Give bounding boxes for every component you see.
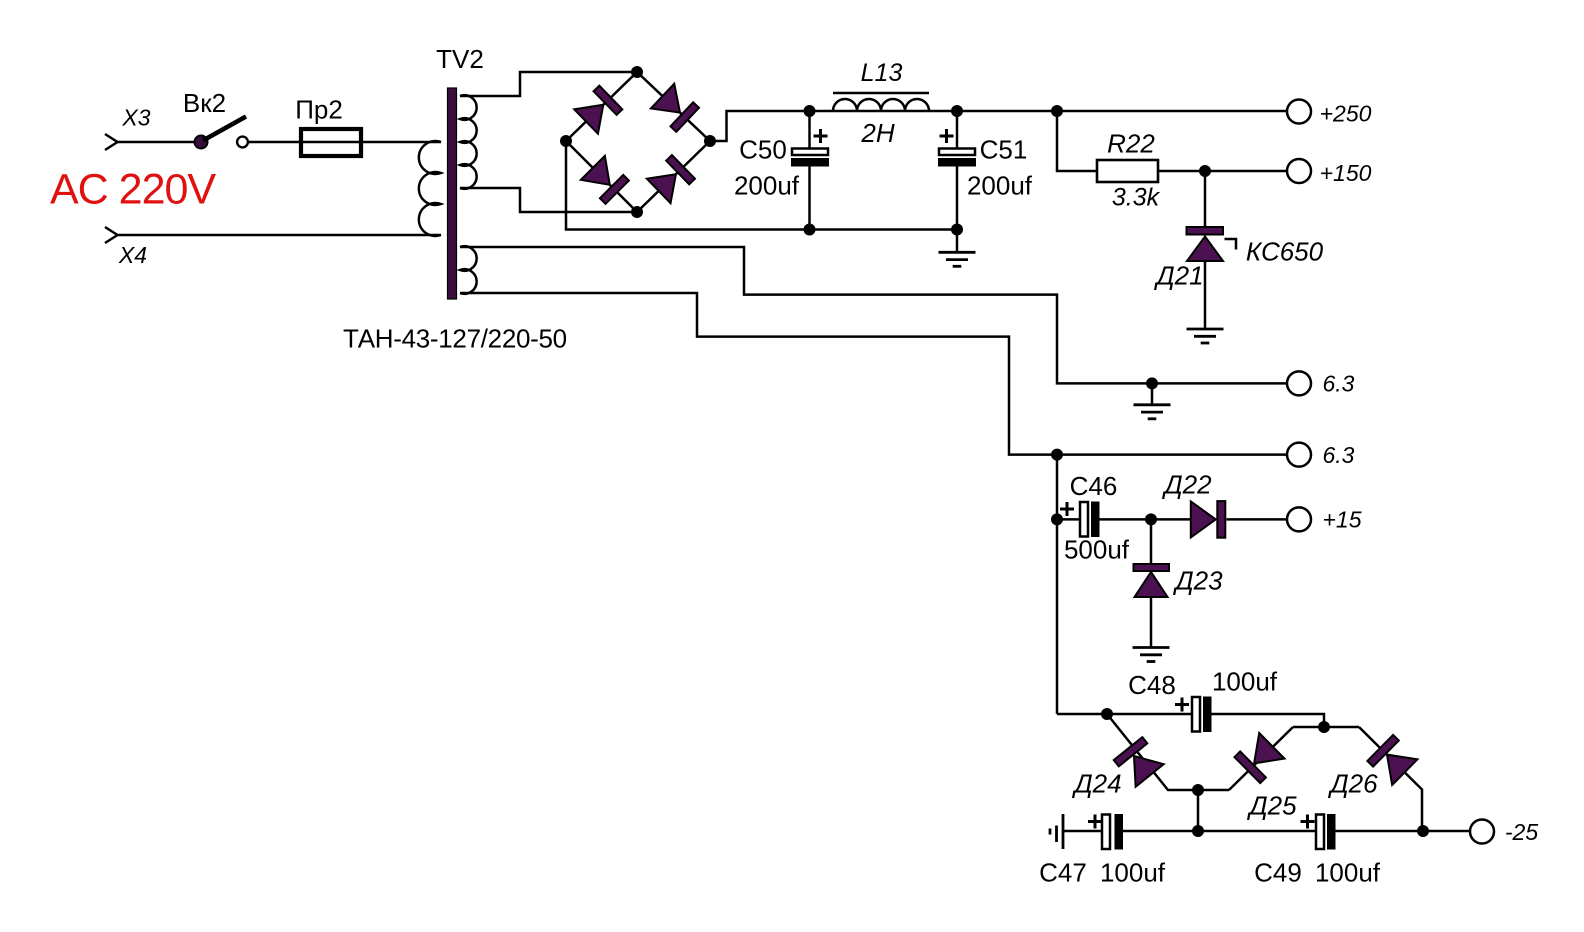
- wire C49 to -25 terminal: [1336, 830, 1471, 833]
- capacitor C50 top stem: [808, 111, 811, 148]
- wire D21 to ground: [1204, 261, 1207, 329]
- zener D23 triangle: [1135, 572, 1168, 597]
- capacitor C47 left plate: [1102, 815, 1110, 850]
- ground under C51 stem: [956, 230, 959, 253]
- ground under C51: [939, 252, 976, 266]
- svg-text:Д24: Д24: [1071, 769, 1121, 799]
- ground stem 6.3 rail: [1151, 383, 1154, 404]
- node D24/D25 junction: [1192, 784, 1204, 796]
- node bridge top: [631, 66, 643, 78]
- terminal X4 arrow: [105, 227, 118, 243]
- svg-text:-25: -25: [1505, 819, 1538, 845]
- wire node to -25 rail: [1197, 790, 1200, 831]
- inductor L13 overline: [833, 92, 929, 95]
- node bridge bottom: [631, 206, 643, 218]
- svg-text:+250: +250: [1320, 101, 1372, 127]
- wire C47 to C49: [1123, 830, 1316, 833]
- node C48 left: [1101, 708, 1113, 720]
- svg-text:Д25: Д25: [1246, 791, 1297, 821]
- node C50 top: [804, 105, 816, 117]
- zener D21 triangle: [1187, 237, 1223, 262]
- svg-text:6.3: 6.3: [1323, 371, 1355, 397]
- svg-text:R22: R22: [1107, 129, 1155, 159]
- capacitor C48 plus: [1175, 698, 1189, 712]
- svg-text:Вк2: Вк2: [183, 88, 226, 118]
- svg-text:C51: C51: [980, 135, 1028, 165]
- capacitor C50 plus: [814, 129, 828, 143]
- svg-text:AC 220V: AC 220V: [50, 166, 216, 214]
- transformer TV2 secondary winding B: [460, 246, 477, 294]
- svg-text:100uf: 100uf: [1100, 858, 1166, 888]
- node +250 rail / R22 tap: [1051, 105, 1063, 117]
- svg-text:100uf: 100uf: [1212, 667, 1278, 697]
- terminal 6.3 first: [1287, 371, 1311, 395]
- svg-text:C49: C49: [1254, 858, 1302, 888]
- side ground at C47: [1050, 814, 1063, 849]
- capacitor C46 right plate: [1091, 502, 1100, 538]
- wire secondary B top lead to 6.3 terminal: [460, 247, 1287, 383]
- zener D21 hook: [1225, 239, 1237, 250]
- svg-text:3.3k: 3.3k: [1112, 184, 1161, 212]
- capacitor C49 plus: [1301, 815, 1315, 829]
- zener D23 cathode bar: [1134, 564, 1170, 571]
- switch Bk2 contact dot: [195, 136, 208, 149]
- node 6.3 rail ground tap: [1146, 377, 1158, 389]
- wire D22 to +15 terminal: [1227, 518, 1288, 521]
- svg-text:Д23: Д23: [1172, 566, 1223, 596]
- wire switch to fuse: [248, 141, 300, 144]
- node -25 rail / D24: [1192, 825, 1204, 837]
- bridge diode bottom-right: [647, 155, 695, 203]
- svg-text:X4: X4: [118, 242, 147, 268]
- wire secondary A top to bridge: [460, 72, 637, 96]
- transformer TV2 secondary winding A: [460, 95, 477, 189]
- bridge diode bottom-left: [581, 156, 629, 204]
- transformer TV2 core: [448, 88, 457, 299]
- svg-text:2H: 2H: [860, 118, 894, 148]
- transformer TV2 primary winding: [419, 141, 441, 236]
- svg-text:C50: C50: [739, 135, 787, 165]
- svg-text:ТАН-43-127/220-50: ТАН-43-127/220-50: [343, 324, 567, 354]
- svg-text:L13: L13: [861, 59, 903, 87]
- switch Bk2 lever: [203, 117, 246, 141]
- svg-text:200uf: 200uf: [734, 171, 800, 201]
- wire C48 right to D25/D26 row: [1212, 714, 1360, 727]
- node D22/D23: [1145, 513, 1157, 525]
- wire D25 top segment: [1293, 726, 1324, 729]
- svg-text:TV2: TV2: [436, 44, 484, 74]
- bridge rectifier arms: [566, 72, 710, 141]
- wire node to D23: [1150, 519, 1153, 564]
- terminal 6.3 second: [1287, 443, 1311, 467]
- node C51 bottom: [951, 224, 963, 236]
- capacitor C46 plus: [1060, 502, 1074, 516]
- diode D26: [1367, 735, 1417, 785]
- node bridge left: [560, 135, 572, 147]
- wire bridge left node to bottom rail: [566, 141, 957, 230]
- capacitor C50 bottom plate: [791, 158, 829, 167]
- wire to C48 row: [1057, 713, 1192, 716]
- capacitor C49 left plate: [1316, 815, 1324, 850]
- node C50 bottom: [804, 224, 816, 236]
- node C48/D25/D26: [1318, 721, 1330, 733]
- node C51 top: [951, 105, 963, 117]
- wire rail to R22: [1057, 111, 1097, 171]
- svg-text:Пр2: Пр2: [295, 95, 343, 125]
- terminal -25: [1470, 820, 1494, 844]
- terminal +250: [1287, 100, 1311, 124]
- diode D25: [1234, 733, 1284, 783]
- switch Bk2 open contact: [237, 137, 248, 148]
- capacitor C51 top stem: [956, 111, 959, 148]
- ground under D23: [1133, 648, 1170, 662]
- wire to C46: [1057, 518, 1080, 521]
- svg-text:500uf: 500uf: [1064, 535, 1130, 565]
- zener D21 cathode bar: [1187, 227, 1224, 235]
- fuse Pr2: [301, 129, 361, 156]
- terminal +150: [1287, 159, 1311, 183]
- wire D26 arm: [1359, 727, 1422, 831]
- capacitor C51 plus: [940, 129, 954, 143]
- svg-text:Д26: Д26: [1327, 769, 1378, 799]
- capacitor C50 top plate: [792, 149, 828, 156]
- wire 6.3 node down to C48 row: [1056, 455, 1059, 714]
- svg-text:C47: C47: [1039, 858, 1087, 888]
- svg-text:X3: X3: [121, 105, 150, 131]
- svg-text:6.3: 6.3: [1323, 442, 1355, 468]
- ground under D21: [1187, 329, 1224, 343]
- node C46 left: [1051, 513, 1063, 525]
- node R22 right / D21: [1199, 165, 1211, 177]
- wire D25 arm: [1229, 727, 1293, 790]
- wire R22 to +150 terminal: [1158, 170, 1287, 173]
- capacitor C47 plus: [1088, 815, 1102, 829]
- resistor R22: [1097, 160, 1158, 182]
- svg-text:200uf: 200uf: [967, 171, 1033, 201]
- wire secondary B bottom lead to second 6.3 terminal: [460, 293, 1287, 455]
- capacitor C49 right plate: [1327, 814, 1336, 850]
- svg-text:+15: +15: [1322, 507, 1361, 533]
- capacitor C47 right plate: [1115, 814, 1124, 850]
- capacitor C48 right plate: [1203, 697, 1212, 733]
- diode D24: [1114, 737, 1164, 787]
- wire D23 to ground: [1150, 597, 1153, 648]
- svg-text:100uf: 100uf: [1315, 858, 1381, 888]
- node bridge right: [704, 135, 716, 147]
- wire node to D21: [1204, 171, 1207, 227]
- bridge diode top-left: [574, 85, 622, 133]
- svg-text:+150: +150: [1320, 160, 1372, 186]
- capacitor C48 left plate: [1192, 697, 1200, 732]
- diode D22: [1191, 501, 1226, 538]
- svg-text:C48: C48: [1128, 670, 1176, 700]
- wire bridge right node to +250 rail: [710, 111, 1287, 141]
- wire ground to C47: [1063, 830, 1102, 833]
- inductor L13: [833, 99, 929, 111]
- capacitor C50 bottom stem: [808, 167, 811, 230]
- wire C46 to node: [1100, 518, 1193, 521]
- svg-text:C46: C46: [1070, 471, 1118, 501]
- wire X3 to switch: [118, 141, 197, 144]
- svg-text:Д22: Д22: [1161, 470, 1212, 500]
- terminal +15: [1287, 507, 1311, 531]
- wire X4 to transformer primary: [118, 234, 442, 237]
- ground on 6.3 rail: [1134, 405, 1171, 419]
- capacitor C51 bottom stem: [956, 167, 959, 230]
- node second 6.3 rail: [1051, 449, 1063, 461]
- capacitor C51 bottom plate: [938, 158, 976, 167]
- svg-text:Д21: Д21: [1153, 261, 1203, 291]
- capacitor C46 left plate: [1080, 502, 1088, 537]
- svg-text:КС650: КС650: [1246, 237, 1324, 267]
- bridge diode top-right: [651, 84, 699, 132]
- wire through fuse to transformer primary: [301, 141, 441, 144]
- terminal X3 arrow: [105, 134, 118, 150]
- node D26 / -25 rail: [1417, 825, 1429, 837]
- capacitor C51 top plate: [939, 149, 975, 156]
- wire D24 arm: [1107, 714, 1229, 790]
- wire secondary A bottom to bridge: [460, 188, 637, 212]
